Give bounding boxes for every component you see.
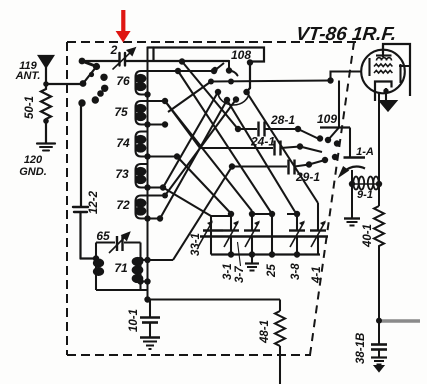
svg-text:76: 76 bbox=[116, 74, 130, 88]
svg-text:40-1: 40-1 bbox=[362, 224, 374, 248]
svg-text:73: 73 bbox=[115, 167, 129, 181]
svg-text:50-1: 50-1 bbox=[24, 96, 36, 119]
svg-text:4-1: 4-1 bbox=[311, 266, 323, 284]
svg-text:28-1: 28-1 bbox=[270, 113, 295, 127]
svg-text:25: 25 bbox=[266, 264, 278, 278]
svg-text:33-1: 33-1 bbox=[190, 233, 202, 256]
svg-text:71: 71 bbox=[114, 261, 128, 275]
svg-text:VT-86 1R.F.: VT-86 1R.F. bbox=[295, 24, 398, 45]
svg-text:12-2: 12-2 bbox=[88, 190, 100, 214]
svg-text:120: 120 bbox=[24, 154, 43, 166]
svg-text:2: 2 bbox=[110, 43, 118, 57]
svg-text:3-7: 3-7 bbox=[234, 266, 246, 283]
svg-text:1-A: 1-A bbox=[356, 146, 374, 158]
svg-text:9-1: 9-1 bbox=[357, 189, 373, 201]
svg-text:74: 74 bbox=[116, 136, 130, 150]
svg-text:10-1: 10-1 bbox=[128, 309, 140, 332]
svg-text:109: 109 bbox=[317, 112, 337, 126]
svg-text:48-1: 48-1 bbox=[259, 320, 271, 344]
svg-text:65: 65 bbox=[96, 229, 110, 243]
svg-text:75: 75 bbox=[114, 105, 128, 119]
svg-text:ANT.: ANT. bbox=[15, 70, 41, 82]
svg-text:108: 108 bbox=[231, 48, 251, 62]
svg-text:29-1: 29-1 bbox=[295, 170, 320, 184]
svg-text:3-1: 3-1 bbox=[222, 263, 234, 280]
svg-text:24-1: 24-1 bbox=[250, 135, 275, 149]
svg-text:38-1B: 38-1B bbox=[355, 333, 367, 364]
svg-text:72: 72 bbox=[116, 198, 130, 212]
svg-text:3-8: 3-8 bbox=[290, 263, 302, 280]
svg-text:GND.: GND. bbox=[19, 166, 47, 178]
